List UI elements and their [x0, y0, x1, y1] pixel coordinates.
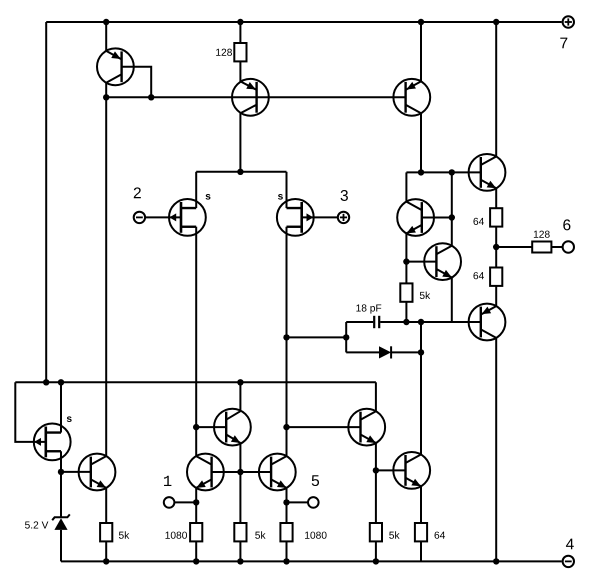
wire mirror column down: [239, 472, 241, 523]
node junction comp riser: [343, 334, 349, 340]
jfet J1 (inverting input): [169, 199, 206, 236]
label 6: [563, 219, 570, 230]
node junction bottom rail / R9: [283, 558, 289, 564]
terminal pin 4 (V-): [563, 556, 574, 567]
wire Q6 base: [406, 261, 436, 263]
terminal pin 5 (offset null): [308, 497, 319, 508]
wire R4 to Q7 emitter: [495, 286, 497, 306]
transistor Q11 (NPN vas A): [348, 409, 385, 446]
transistor Q1 (PNP diode-connected): [97, 48, 134, 85]
label s (J1 source): [206, 194, 211, 200]
wire left rail down: [45, 22, 47, 382]
label 2: [134, 187, 141, 198]
resistor R10 5k: [370, 523, 382, 541]
jfet J3 (bias): [34, 424, 71, 461]
wire R2 bottom: [405, 302, 407, 322]
node junction top rail / Q1 emitter: [103, 19, 109, 25]
wire Q9 emitter down: [195, 488, 197, 523]
wire Q12 base: [376, 469, 406, 471]
resistor R5 128: [532, 242, 551, 253]
wire J2 source up: [286, 172, 288, 208]
node junction tail rail / Q2 collector: [237, 169, 243, 175]
node junction bottom rail / R10: [373, 558, 379, 564]
node junction right rail / Q3 collector: [418, 169, 424, 175]
wire Q6 emitter down: [451, 278, 453, 323]
wire to D1: [346, 351, 379, 353]
label 5k (R6): [119, 531, 129, 538]
node junction diode node top: [418, 319, 424, 325]
node junction middle rail / Q8 collector: [237, 379, 243, 385]
node junction J2 drain / compensation: [283, 334, 289, 340]
label 4: [566, 539, 574, 550]
node junction middle rail / J3 source: [58, 379, 64, 385]
wire J2 gate to input 3: [302, 216, 339, 218]
wire Q1 emitter: [105, 22, 107, 51]
wire Q3 collector rail corner: [405, 172, 407, 201]
node junction J2 drain / Q11 base: [283, 424, 289, 430]
wire R11 to rail: [420, 541, 422, 561]
wire J1 drain to Q9 collector: [195, 427, 197, 456]
node junction output node: [493, 244, 499, 250]
wire middle rail left bend: [15, 382, 46, 442]
node junction bottom rail / R8: [237, 558, 243, 564]
wire J3 source up: [60, 382, 62, 432]
wire Q11 base: [287, 426, 361, 428]
label s (J3 source): [67, 416, 72, 422]
wire R9 to rail: [286, 541, 288, 561]
zener D2 5.2V: [52, 514, 70, 530]
wire right rail: [406, 171, 480, 173]
node junction pin1 / Q9 emitter: [193, 499, 199, 505]
node junction top rail / Q4 collector: [493, 19, 499, 25]
wire R8 to rail: [239, 541, 241, 561]
wire mirror base rail: [212, 471, 272, 473]
wire middle rail: [15, 381, 376, 383]
wire pin 1 lead: [174, 501, 196, 503]
wire comp riser: [345, 322, 347, 352]
jfet J2 (non-inverting input): [277, 199, 314, 236]
label 128 (R1): [216, 49, 232, 56]
node junction middle rail / left rail: [43, 379, 49, 385]
wire Q4 emitter to R3: [495, 188, 497, 208]
transistor Q9 (NPN mirror left): [187, 454, 224, 491]
label 128 (R5): [534, 231, 550, 238]
transistor Q13 (NPN bias): [79, 454, 116, 491]
wire Q2 collector down: [239, 113, 241, 172]
node junction base loop / base rail: [148, 94, 154, 100]
wire Q13 collector up: [105, 97, 107, 456]
terminal pin 3 (non-inverting input): [338, 212, 349, 223]
transistor Q4 (NPN output top): [469, 154, 506, 191]
wire Q1 collector down: [105, 83, 107, 98]
node junction Q5 emitter / Q6 base / R2: [403, 258, 409, 264]
wire Q13 base: [61, 471, 91, 473]
node junction Q5 base: [449, 214, 455, 220]
wire diode node to Q7 base: [421, 321, 481, 323]
node junction top rail / Q3 emitter: [418, 19, 424, 25]
node junction Q1 collector / base rail: [103, 94, 109, 100]
wire zener top: [60, 472, 62, 517]
label 7: [560, 38, 567, 49]
node junction diode node bottom: [418, 349, 424, 355]
wire base rail: [106, 96, 405, 98]
wire R2 top: [405, 262, 407, 284]
wire R2 node to diode node: [406, 321, 421, 323]
wire J2 drain continues: [286, 337, 288, 427]
wire Q13 emitter down: [105, 488, 107, 523]
terminal pin 1 (offset null): [164, 497, 175, 508]
wire Q6 column: [451, 172, 453, 245]
wire C1 to R2 node: [380, 321, 406, 323]
wire to C1: [346, 321, 373, 323]
wire Q5 base: [422, 217, 452, 219]
wire JFET tail rail: [196, 171, 286, 173]
wire R7 to rail: [195, 541, 197, 561]
node junction pin5 / Q10 emitter: [283, 499, 289, 505]
resistor R9 1080: [280, 523, 292, 541]
terminal pin 7 (V+): [563, 16, 574, 27]
wire J1 source up: [195, 172, 197, 208]
label 5k (R2): [420, 292, 430, 299]
wire node to R5: [496, 246, 532, 248]
node junction top rail / R1: [237, 19, 243, 25]
wire node to R4: [495, 247, 497, 268]
wire R3 to node 6: [495, 227, 497, 247]
transistor Q3 (PNP mirror): [393, 79, 430, 116]
label 5k (R10): [389, 531, 399, 538]
wire V- bottom rail: [61, 560, 562, 562]
label 1: [164, 476, 171, 486]
terminal pin 2 (inverting input): [134, 212, 145, 223]
node junction bottom rail / Q7 collector: [493, 558, 499, 564]
node junction J1 drain / Q8 base: [193, 424, 199, 430]
wire Q3 collector down: [420, 113, 422, 172]
wire Q11 emitter to R10: [375, 470, 377, 523]
label 3: [341, 190, 348, 201]
wire Q10 emitter down: [286, 488, 288, 523]
node junction Q11 emitter / Q12 base: [373, 467, 379, 473]
node junction R2 bottom: [403, 319, 409, 325]
diode D1: [379, 346, 391, 358]
wire zener bottom: [60, 530, 62, 562]
wire input 2 to J1 gate: [145, 216, 181, 218]
label 64 (R4): [473, 272, 484, 279]
wire Q1 base loop: [122, 67, 152, 98]
label 1080 (R7): [165, 532, 187, 539]
wire D1 to node: [391, 351, 421, 353]
label 64 (R11): [435, 532, 446, 539]
label 18 pF (C1): [356, 304, 381, 313]
wire Q5 emitter down: [405, 233, 407, 261]
node junction bottom rail / R7: [193, 558, 199, 564]
wire R5 to pin 6: [551, 246, 562, 248]
wire J2 drain to Q10 collector: [286, 427, 288, 456]
transistor Q12 (NPN vas B): [393, 452, 430, 489]
resistor R2 5k: [400, 283, 412, 301]
terminal pin 6 (output): [563, 241, 574, 252]
label 1080 (R9): [305, 532, 327, 539]
wire R10 to rail: [375, 541, 377, 561]
wire Q12 emitter down: [420, 486, 422, 523]
wire diode node vertical: [420, 322, 422, 352]
transistor Q10 (NPN mirror right): [259, 454, 296, 491]
wire V+ top rail: [46, 21, 562, 23]
wire top rail to R1: [239, 22, 241, 43]
wire pin 5 lead: [287, 501, 309, 503]
label 5.2 V (D2): [25, 521, 48, 528]
label s (J2 source): [278, 194, 283, 200]
transistor Q7 (PNP output bottom): [469, 304, 506, 341]
wire Q8 base: [196, 426, 226, 428]
wire Q4 collector up: [495, 22, 497, 157]
transistor Q6 (NPN darlington B): [424, 243, 461, 280]
wire J1 drain down: [195, 227, 197, 427]
wire J3 drain down: [60, 451, 62, 472]
resistor R8 5k: [234, 523, 246, 541]
wire Q11 emitter down: [375, 443, 377, 470]
capacitor C1 18pF: [374, 316, 379, 328]
wire comp takeoff: [287, 336, 347, 338]
transistor Q8 (NPN mirror top): [214, 409, 251, 446]
node junction J3 drain / Q13 base: [58, 469, 64, 475]
node junction right rail / Q6 column: [449, 169, 455, 175]
resistor R1 128: [234, 43, 246, 61]
wire Q3 emitter up: [420, 22, 422, 81]
wire Q8 collector up: [239, 382, 241, 411]
label 5: [312, 475, 319, 486]
resistor R11 64: [415, 523, 427, 541]
resistor R6 5k: [100, 523, 112, 541]
node junction bottom rail / R6: [103, 558, 109, 564]
wire J2 drain down: [286, 227, 288, 338]
wire R1 to Q2 emitter: [239, 61, 241, 81]
label 64 (R3): [473, 218, 484, 225]
transistor Q5 (NPN darlington A): [397, 199, 434, 236]
wire middle rail right bend: [375, 382, 377, 411]
wire R6 to rail: [105, 541, 107, 561]
transistor Q2 (PNP current source): [232, 79, 269, 116]
wire Q7 collector down: [495, 338, 497, 562]
resistor R3 64: [490, 208, 502, 226]
label 5k (R8): [255, 531, 265, 538]
resistor R4 64: [490, 268, 502, 286]
wire diode node to Q12 collector: [420, 352, 422, 454]
resistor R7 1080: [190, 523, 202, 541]
node junction mirror base rail: [237, 469, 243, 475]
wire Q8 emitter down: [239, 443, 241, 472]
